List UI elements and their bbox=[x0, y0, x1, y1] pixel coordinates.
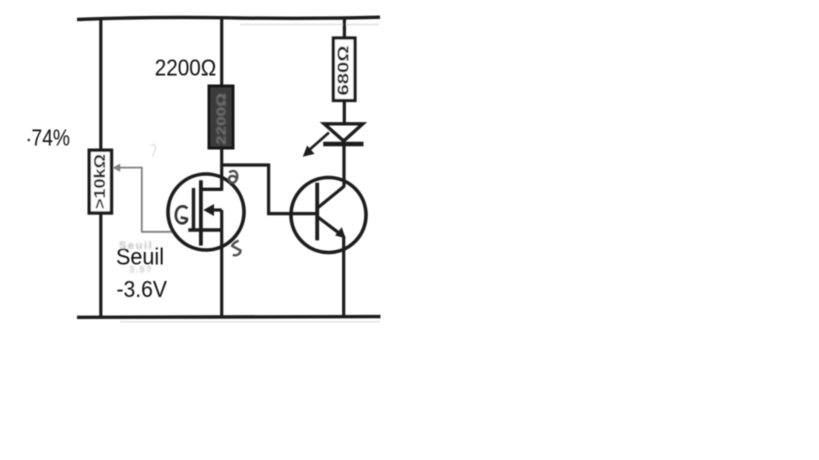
pin label G bbox=[176, 206, 188, 223]
LED D1 emission arrow bbox=[304, 133, 329, 157]
LED D1 triangle bbox=[324, 124, 363, 141]
bottom ground rail bbox=[77, 317, 381, 322]
resistor R3 680Ω bbox=[333, 38, 355, 101]
BJT Q2 base bar bbox=[315, 183, 319, 241]
svg-text:3.5?: 3.5? bbox=[129, 265, 153, 276]
resistor R2 2200Ω (dark body) bbox=[209, 86, 233, 148]
svg-text:74%: 74% bbox=[32, 124, 71, 150]
label 74% bbox=[28, 124, 71, 150]
watermark ghost 3.5 bbox=[129, 265, 153, 276]
MOSFET Q1 gate bar bbox=[192, 188, 195, 232]
MOSFET Q1 channel bar bbox=[199, 180, 203, 245]
resistor R1 10kΩ bbox=[89, 150, 111, 213]
wire left branch upper bbox=[99, 18, 102, 151]
wire MOSFET drain node to BJT base bbox=[222, 165, 317, 214]
top supply rail bbox=[77, 17, 380, 24]
svg-text:2200Ω: 2200Ω bbox=[215, 93, 229, 145]
BJT Q2 emitter diagonal with arrowhead bbox=[318, 217, 345, 238]
pin label S bbox=[232, 241, 240, 256]
wire R2 bottom to MOSFET drain bbox=[220, 148, 223, 191]
BJT Q2 emitter vertical wire to ground rail bbox=[342, 236, 345, 317]
grey feedback wire with arrow to R1 bbox=[113, 164, 172, 232]
wire middle branch top bbox=[220, 18, 223, 87]
label Seuil bbox=[116, 243, 164, 269]
MOSFET Q1 body circle bbox=[168, 174, 244, 250]
wire LED cathode to BJT collector bbox=[342, 146, 345, 187]
MOSFET Q1 source vertical wire to ground rail bbox=[220, 210, 223, 317]
MOSFET Q1 drain lead bbox=[201, 188, 222, 191]
BJT Q2 collector diagonal bbox=[317, 186, 344, 208]
scan smudge tick bbox=[151, 145, 156, 157]
label 2200Ω bbox=[155, 55, 217, 81]
wire left branch lower bbox=[99, 213, 102, 317]
MOSFET Q1 body arrow bbox=[204, 205, 221, 215]
svg-text:Seuil: Seuil bbox=[119, 240, 153, 252]
svg-text:2200Ω: 2200Ω bbox=[155, 55, 217, 81]
wire R3 to LED anode bbox=[343, 101, 346, 125]
BJT Q2 body circle bbox=[291, 178, 366, 253]
label -3.6V bbox=[117, 276, 168, 302]
pin label D bbox=[229, 171, 237, 183]
svg-text:-3.6V: -3.6V bbox=[117, 276, 168, 302]
svg-text:680Ω: 680Ω bbox=[336, 46, 353, 96]
LED D1 cathode bar bbox=[323, 142, 363, 147]
svg-text:>10kΩ: >10kΩ bbox=[92, 154, 109, 209]
MOSFET Q1 source/gate bottom lead bbox=[188, 228, 221, 231]
wire top rail to R3 bbox=[343, 18, 346, 39]
watermark ghost Seuil bbox=[119, 240, 153, 252]
